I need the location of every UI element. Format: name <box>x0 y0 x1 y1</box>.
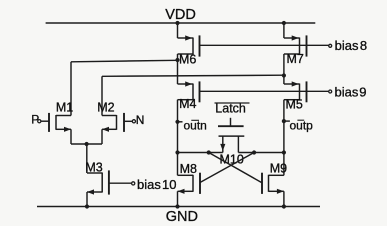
wire gate line M6-M7 to bias8 <box>200 44 329 46</box>
junction GND / M8 source <box>175 204 179 208</box>
node outp stub <box>284 120 290 122</box>
transistor M10 channel <box>219 135 245 137</box>
wire M2 drain to node B <box>102 75 284 76</box>
wire P to M1 gate <box>41 120 49 122</box>
junction outn terminal <box>175 120 179 124</box>
wire M7 drain to M5 source (node B) <box>283 54 285 84</box>
transistor M10 source lead <box>222 136 224 152</box>
wire M3 gate to bias10 <box>109 182 132 184</box>
wire latch node left segment <box>178 152 223 154</box>
junction GND / M3 source <box>85 204 89 208</box>
svg-text:M4: M4 <box>179 97 196 111</box>
wire M5 drain to outp to latch node <box>283 100 285 153</box>
wire M2 source to tail <box>101 129 103 144</box>
junction outp latch-node <box>282 150 286 154</box>
svg-text:GND: GND <box>166 209 198 225</box>
wire GND rail <box>37 206 320 208</box>
node outn stub <box>178 121 183 123</box>
junction cross-couple left <box>207 150 211 154</box>
svg-text:M9: M9 <box>270 161 287 175</box>
junction outn latch-node <box>175 150 179 154</box>
svg-text:M3: M3 <box>85 161 102 175</box>
svg-text:M2: M2 <box>97 101 114 115</box>
wire M1 source to tail <box>70 129 72 144</box>
junction tail node <box>85 142 89 146</box>
junction GND / M9 source <box>282 204 286 208</box>
wire M9 source to GND <box>283 191 285 206</box>
wire gate line M4-M5 to bias9 <box>200 90 329 92</box>
svg-text:bias9: bias9 <box>335 84 367 99</box>
transistor M2 <box>102 115 117 117</box>
svg-text:bias8: bias8 <box>335 38 367 53</box>
transistor M5 <box>284 83 300 85</box>
transistor M3 <box>87 172 102 174</box>
transistor M7 <box>284 37 300 39</box>
junction node B / M2 drain wire <box>282 73 286 77</box>
svg-text:M7: M7 <box>287 52 304 66</box>
wire VDD to M6 source <box>177 23 179 38</box>
wire tail to M3 drain <box>86 144 88 173</box>
wire cross-couple right-to-M8-gate <box>200 153 254 183</box>
terminal bias10 <box>132 182 135 185</box>
wire latch node right segment <box>238 152 284 154</box>
junction VDD / M7 branch <box>282 21 286 25</box>
overline Latch (latch-bar) <box>215 102 250 104</box>
transistor M9 <box>269 174 284 176</box>
svg-text:M5: M5 <box>286 98 303 112</box>
terminal N input <box>132 120 135 123</box>
transistor M8 <box>178 174 194 176</box>
svg-text:P: P <box>31 113 39 127</box>
wire VDD rail <box>46 22 316 24</box>
junction VDD / M6 branch <box>175 21 179 25</box>
wire M6 drain to M4 source (node A) <box>177 54 179 84</box>
transistor M1 <box>56 115 71 117</box>
wire VDD to M7 source <box>283 23 285 38</box>
wire M4 drain to outn to latch node <box>177 100 179 153</box>
svg-text:M6: M6 <box>179 53 196 67</box>
terminal P input <box>38 120 41 123</box>
svg-text:M1: M1 <box>56 101 73 115</box>
wire outp node to M9 drain <box>283 153 285 176</box>
junction outp terminal <box>282 119 286 123</box>
overline outn <box>191 119 199 121</box>
wire M3 source to GND <box>86 192 88 207</box>
transistor M6 <box>178 37 194 39</box>
svg-text:M8: M8 <box>180 162 197 176</box>
transistor M10 drain lead <box>237 136 239 152</box>
wire Latch to M10 gate <box>230 118 232 126</box>
svg-text:bias10: bias10 <box>137 177 177 192</box>
junction node A / M1 drain wire <box>175 58 179 62</box>
svg-text:N: N <box>136 113 145 127</box>
junction cross-couple right <box>252 150 256 154</box>
overline outp <box>297 119 304 121</box>
wire outn node to M8 drain <box>177 153 179 176</box>
wire cross-couple left-to-M9-gate <box>209 153 262 183</box>
terminal bias9 <box>329 90 332 93</box>
transistor M4 <box>178 83 194 85</box>
terminal bias8 <box>329 44 332 47</box>
wire M8 source to GND <box>177 191 179 206</box>
svg-text:VDD: VDD <box>165 7 196 23</box>
wire M1 drain to node A <box>71 60 178 62</box>
transistor M10 gate bar <box>218 125 244 127</box>
wire N to M2 gate <box>124 120 132 122</box>
